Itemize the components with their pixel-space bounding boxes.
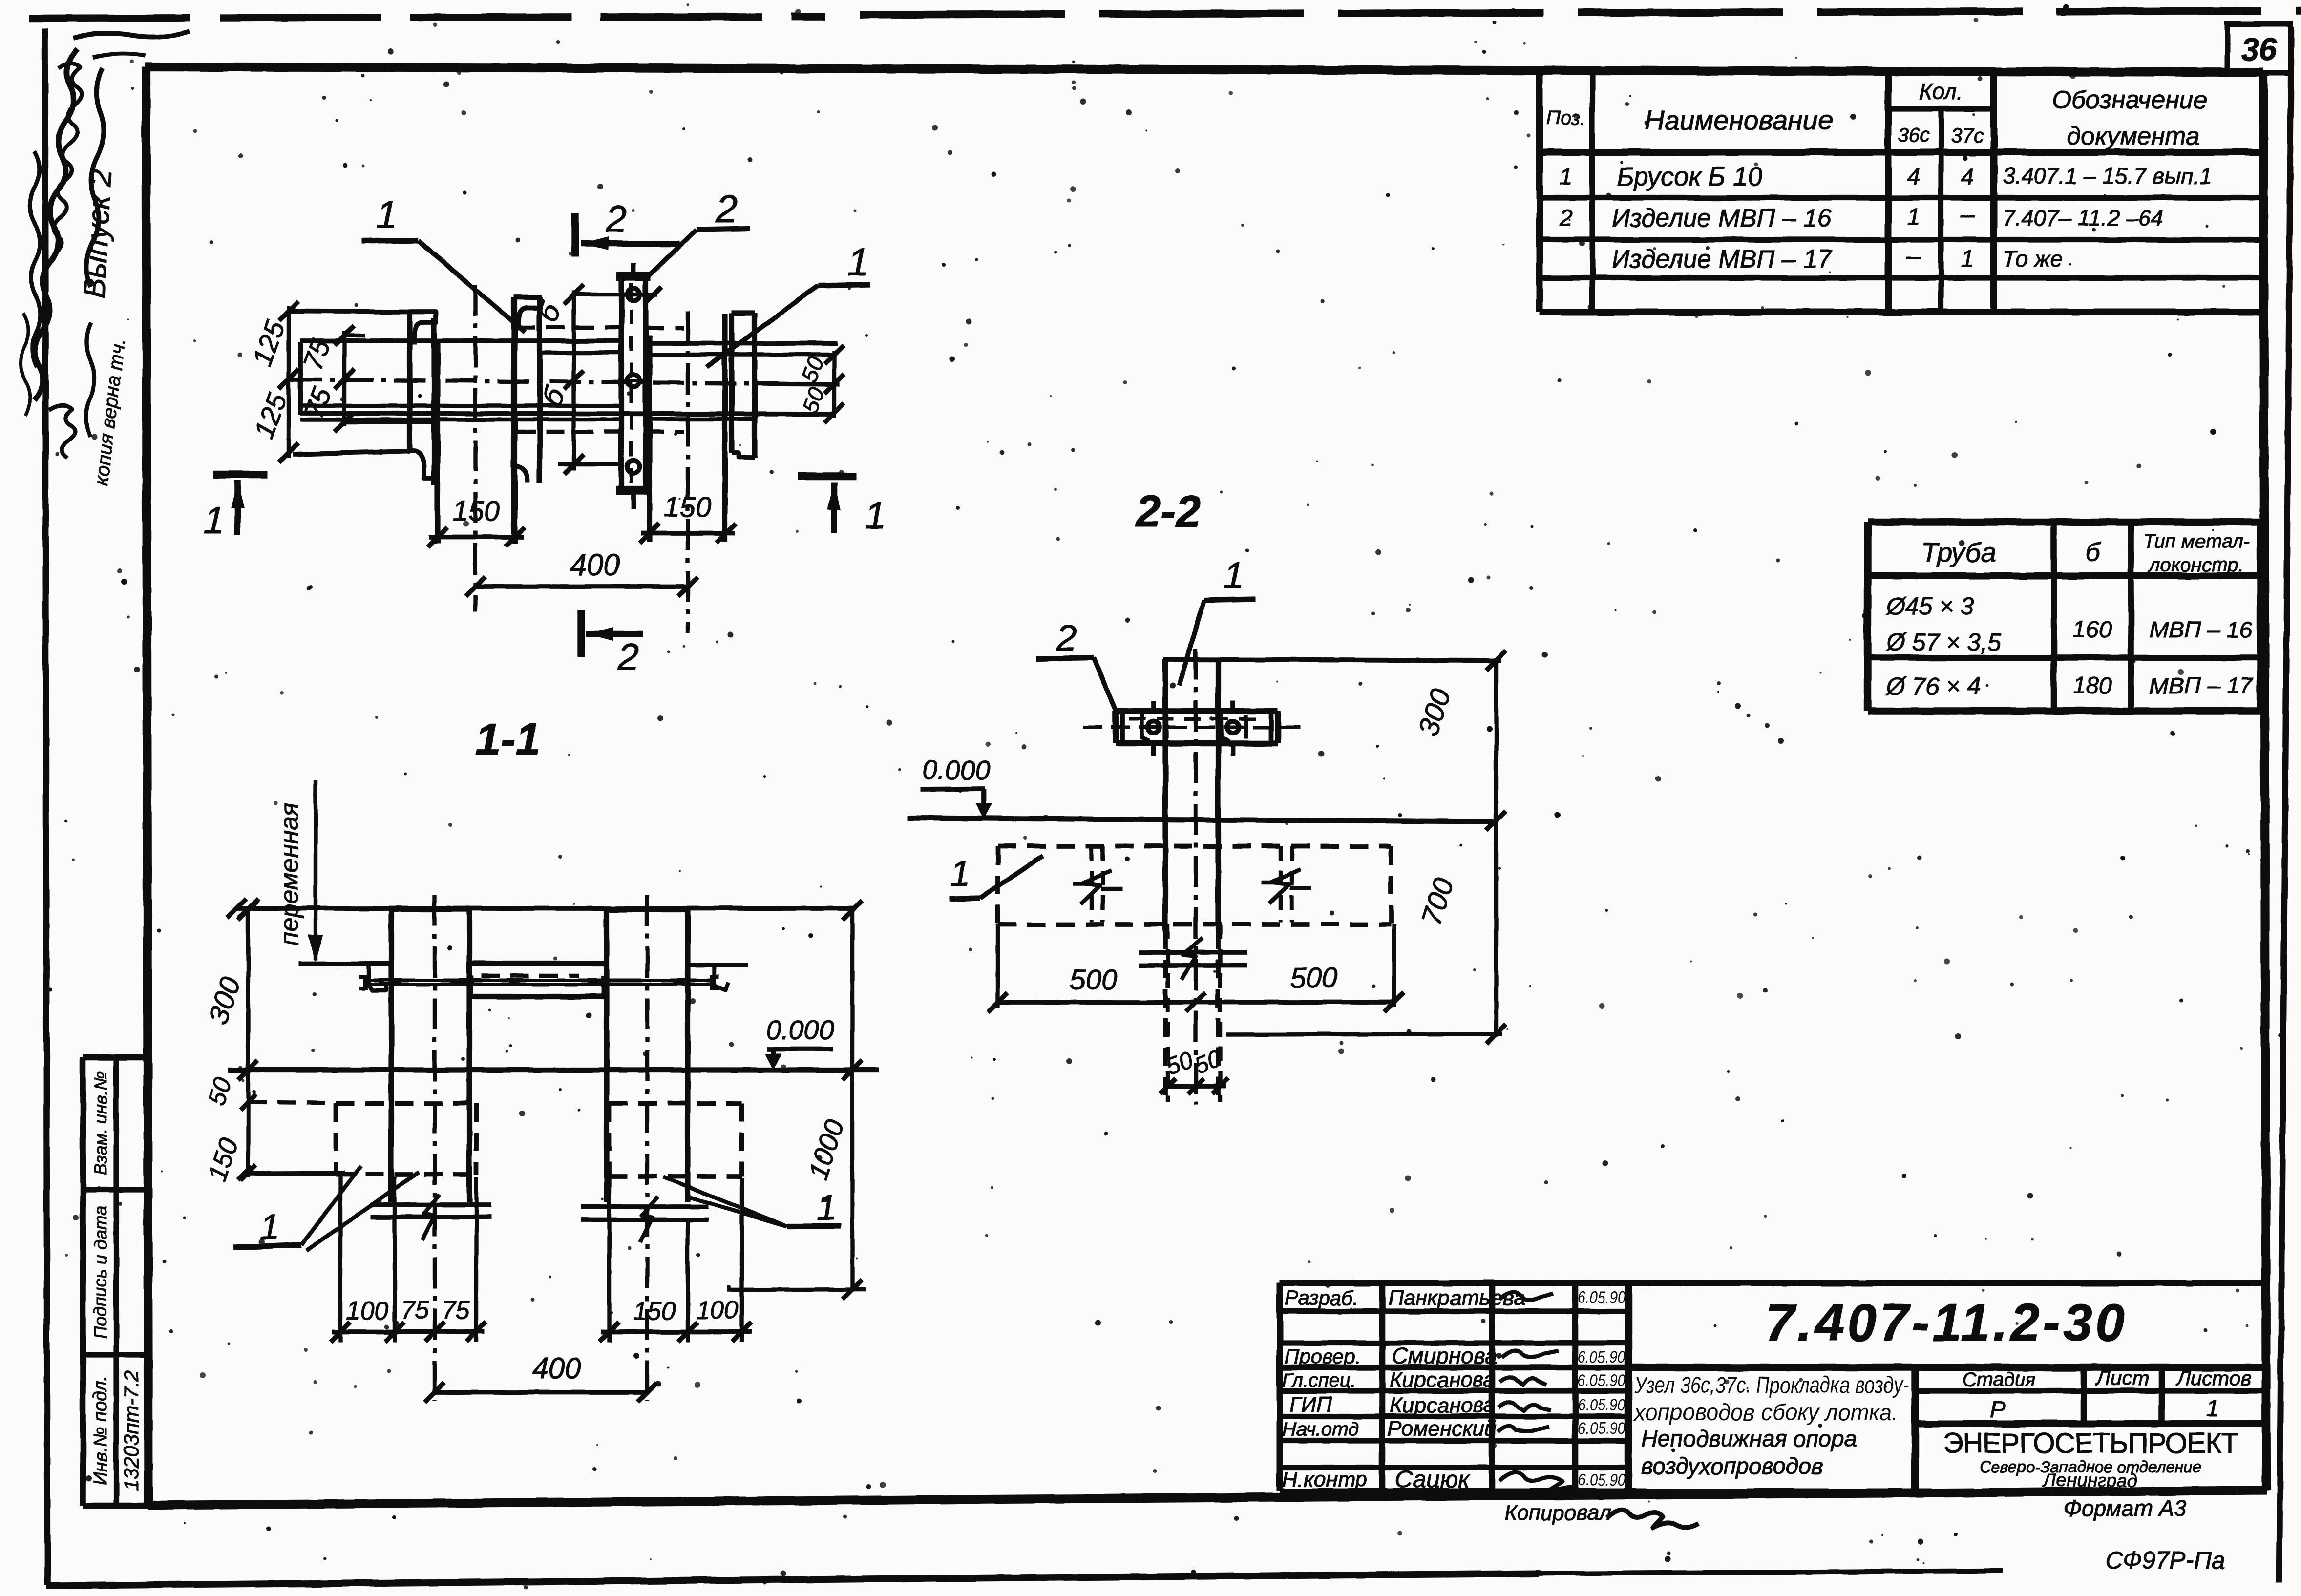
svg-text:500: 500 [1290,962,1338,994]
title block outer frame [1280,1283,2266,1491]
svg-text:Наименование: Наименование [1645,105,1833,135]
svg-text:б: б [2085,537,2101,567]
centreline right block [686,312,690,633]
svg-text:1: 1 [1961,246,1974,272]
svg-text:1: 1 [376,192,398,236]
svg-text:3.407.1 – 15.7 вып.1: 3.407.1 – 15.7 вып.1 [2003,163,2212,189]
dim 300/700 s2 [1494,660,1498,1036]
page number box [2227,24,2291,73]
svg-text:1: 1 [847,240,869,284]
svg-text:Неподвижная опора: Неподвижная опора [1641,1426,1857,1451]
svg-text:Листов: Листов [2175,1366,2252,1389]
svg-text:2: 2 [1056,617,1077,659]
svg-text:6.05.90: 6.05.90 [1578,1371,1625,1390]
svg-text:6.05.90: 6.05.90 [1578,1471,1625,1490]
svg-text:Гл.спец.: Гл.спец. [1282,1370,1356,1391]
svg-text:0.000: 0.000 [766,1014,834,1045]
pipe outline plan [298,342,303,415]
svg-text:6.05.90: 6.05.90 [1578,1348,1625,1366]
svg-text:Роменский: Роменский [1387,1417,1497,1441]
svg-text:4: 4 [1907,164,1921,190]
extension verticals for lower dims [338,1173,342,1342]
svg-text:То же: То же [2003,246,2062,272]
svg-text:1: 1 [950,853,970,894]
svg-text:6.05.90: 6.05.90 [1578,1419,1625,1438]
svg-text:2: 2 [605,197,627,240]
svg-text:Панкратьева: Панкратьева [1388,1286,1525,1310]
bottom outer sheet line [46,1574,1539,1586]
svg-text:150: 150 [633,1297,676,1325]
anchor bolts dashed s2 [1090,846,1094,922]
svg-text:документа: документа [2067,122,2200,150]
svg-text:100: 100 [346,1297,389,1325]
dim peremennaya (variable) [314,780,317,960]
svg-text:1: 1 [816,1187,836,1228]
svg-text:Изделие МВП – 16: Изделие МВП – 16 [1612,204,1832,232]
dim chain 125/125 [287,306,291,458]
svg-text:Ø45 × 3: Ø45 × 3 [1885,592,1974,620]
section mark 2 top [571,213,579,257]
post break s2 [1139,950,1247,955]
ground line s2 [908,818,1494,821]
svg-text:400: 400 [570,548,620,582]
dim 500/500 [998,1000,1394,1005]
svg-text:Р: Р [1990,1397,2005,1423]
svg-text:7.407– 11.2 –64: 7.407– 11.2 –64 [2003,205,2163,231]
pipe hidden edges dashed [517,325,621,329]
svg-text:4: 4 [1961,164,1974,190]
svg-text:1: 1 [203,499,224,542]
dim b (б) vertical [572,291,576,470]
dim 50/50 plan [832,351,836,418]
post centreline s2 [1194,649,1198,1105]
svg-text:ГИП: ГИП [1289,1392,1332,1416]
svg-text:75: 75 [442,1296,470,1324]
clamp plate right (plan) [729,313,734,453]
dim 150 right [641,531,735,536]
svg-text:1: 1 [1224,555,1244,596]
svg-text:–: – [1960,200,1975,229]
foundation dashed right [607,1103,612,1176]
pipe table grid [1864,522,1871,711]
svg-text:180: 180 [2073,673,2112,699]
svg-text:локонстр.: локонстр. [2148,554,2244,576]
lotok wall bracket left (plan) [407,312,412,451]
svg-text:7.407-11.2-30: 7.407-11.2-30 [1765,1293,2128,1352]
left stamp block [83,1054,147,1061]
signatures squiggles [1499,1292,1553,1300]
break marks right column [581,1204,708,1209]
dim 1000 s1 [850,909,854,1291]
svg-text:Поз.: Поз. [1546,107,1586,129]
top broken paper edge line [29,17,825,19]
svg-text:–: – [1906,242,1921,271]
lotok wall bracket right (plan) [511,297,516,534]
title block rows left part [1280,1308,1628,1314]
lotok wall top left [298,961,391,966]
svg-text:ЭНЕРГОСЕТЬПРОЕКТ: ЭНЕРГОСЕТЬПРОЕКТ [1943,1428,2238,1459]
title block middle/right dividers [1628,1364,2266,1371]
tray item 2 between walls [469,961,607,966]
clamp bolts s2 [1148,721,1160,733]
svg-text:Копировал: Копировал [1504,1501,1611,1525]
svg-text:Выпуск 2: Выпуск 2 [78,168,118,299]
svg-text:Разраб.: Разраб. [1285,1286,1359,1309]
strap МВП (plan) [618,276,624,492]
svg-text:Н.контр: Н.контр [1282,1468,1367,1491]
svg-text:160: 160 [2073,617,2112,643]
svg-text:100: 100 [696,1296,739,1324]
svg-text:МВП – 16: МВП – 16 [2149,617,2253,642]
drawing frame [145,67,2263,72]
svg-text:Обозначение: Обозначение [2052,86,2208,114]
svg-text:2: 2 [715,187,738,231]
top of blocks line [237,906,854,911]
dim 50/50 s2 [1166,924,1170,1102]
svg-text:Кирсанова: Кирсанова [1390,1393,1496,1417]
svg-text:Формат А3: Формат А3 [2064,1495,2187,1521]
svg-text:1: 1 [1907,204,1921,230]
column centrelines s1 [433,895,437,1401]
wooden block pair left (plan) [435,342,440,544]
left outer sheet line [45,28,47,1585]
svg-text:Стадия: Стадия [1963,1369,2036,1390]
svg-text:переменная: переменная [275,802,304,945]
strap bolts (plan) [627,288,640,301]
svg-text:Ленинград: Ленинград [2042,1470,2137,1491]
wooden block pair right (plan) [647,336,652,542]
ground line 0.000 s1 [229,1067,879,1072]
handwritten margin scribbles [34,49,77,400]
svg-text:Инв.№ подл.: Инв.№ подл. [90,1375,111,1485]
lotok wall top right [688,963,748,967]
svg-text:13203пт-7.2: 13203пт-7.2 [120,1370,143,1491]
post verticals s2 [1162,659,1168,930]
svg-text:1-1: 1-1 [476,714,541,764]
dim line 100 75 75 [332,1329,485,1334]
svg-text:0.000: 0.000 [922,755,991,785]
foundation dashed left [334,1103,338,1175]
svg-text:Лист: Лист [2095,1366,2149,1389]
svg-text:Брусок Б 10: Брусок Б 10 [1617,162,1762,191]
svg-text:500: 500 [1070,964,1118,996]
dim 400 plan [475,584,688,589]
svg-text:воздухопроводов: воздухопроводов [1641,1453,1823,1479]
svg-text:Взам. инв.№: Взам. инв.№ [90,1071,110,1176]
centreline left block [473,285,477,611]
dim 300 s1 [246,906,250,1072]
svg-text:Подпись и дата: Подпись и дата [90,1206,110,1339]
svg-text:2-2: 2-2 [1135,486,1201,536]
svg-text:400: 400 [532,1352,581,1385]
parts table grid [1536,69,1543,312]
pipe centreline plan [291,379,846,384]
dim 150 left [429,535,524,540]
plan left wall edges [287,311,410,312]
section mark 1 right [798,472,856,480]
svg-text:Ø 57 × 3,5: Ø 57 × 3,5 [1885,629,2001,656]
right lotok wall column [604,909,609,1202]
svg-text:6.05.90: 6.05.90 [1578,1288,1625,1307]
svg-text:36с: 36с [1898,125,1930,146]
dim 150 s1 [246,1102,250,1178]
section mark 1 left [213,471,268,478]
svg-text:Смирнова: Смирнова [1392,1343,1497,1368]
dim 50 s1 [246,1070,250,1107]
svg-text:Сацюк: Сацюк [1394,1466,1471,1493]
svg-text:1: 1 [865,494,886,537]
svg-text:2: 2 [1559,205,1573,231]
tie rod through walls [365,979,712,982]
svg-text:6.05.90: 6.05.90 [1578,1396,1625,1414]
break marks left column [371,1202,491,1207]
dim 400 s1 [435,1390,647,1395]
svg-text:хопроводов сбоку лотка.: хопроводов сбоку лотка. [1633,1399,1898,1425]
foundation dashed box s2 [998,844,1391,849]
right outer sheet line [2279,27,2291,1582]
title block verticals left part [1379,1283,1386,1491]
svg-text:Нач.отд: Нач.отд [1282,1419,1359,1440]
svg-text:Ø 76 × 4: Ø 76 × 4 [1885,672,1981,700]
svg-text:Кирсанова: Кирсанова [1390,1368,1496,1392]
svg-text:75: 75 [401,1296,429,1324]
svg-text:Изделие МВП – 17: Изделие МВП – 17 [1612,245,1833,273]
svg-text:37с: 37с [1951,124,1984,147]
dim chain 75/75 [342,331,346,426]
dim line 150 100 right [601,1329,752,1334]
left lotok wall column [388,909,394,1202]
clamp bar s2 [1116,708,1278,714]
svg-text:36: 36 [2241,31,2278,67]
svg-text:СФ97Р-Па: СФ97Р-Па [2105,1547,2225,1574]
svg-text:Узел 36с,37с. Прокладка возду-: Узел 36с,37с. Прокладка возду- [1634,1372,1909,1398]
svg-text:Кол.: Кол. [1919,79,1963,104]
svg-text:МВП – 17: МВП – 17 [2149,673,2253,698]
svg-text:Труба: Труба [1921,537,1996,567]
post top line / ext 300 [1164,659,1501,660]
svg-text:Провер.: Провер. [1285,1345,1361,1368]
section mark 2 bottom [577,609,585,657]
svg-text:1: 1 [2206,1396,2219,1422]
svg-text:2: 2 [617,635,639,678]
svg-text:Тип метал-: Тип метал- [2143,531,2250,552]
svg-text:1: 1 [1560,164,1573,190]
anchor bolt breaks s2 [1073,882,1094,886]
svg-text:1: 1 [259,1207,279,1247]
